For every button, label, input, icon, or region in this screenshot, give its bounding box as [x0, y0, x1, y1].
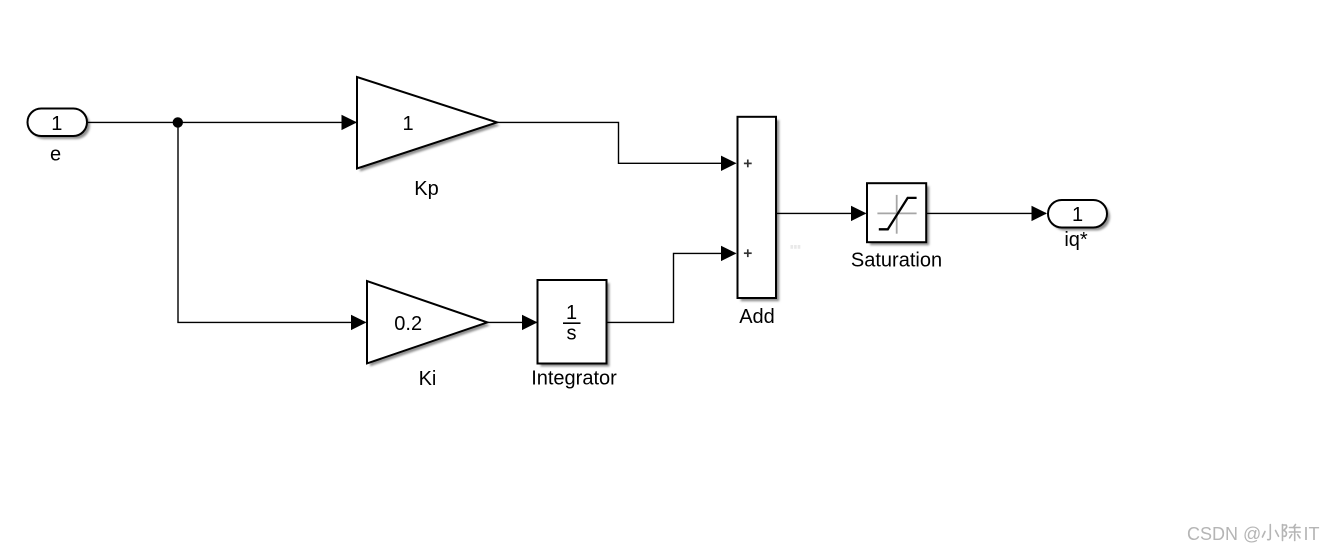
input port e (Inport 1): [28, 109, 91, 140]
svg-text:1: 1: [402, 113, 413, 135]
arrowhead into Saturation: [851, 206, 867, 221]
integrator U1: [538, 280, 610, 367]
wire Add to Saturation: [777, 212, 866, 214]
plus sign input 2: [744, 249, 752, 257]
svg-text:iq*: iq*: [1064, 229, 1088, 251]
arrowhead into Add input 2: [721, 246, 737, 261]
svg-text:1: 1: [51, 113, 62, 135]
svg-text:Add: Add: [739, 306, 775, 328]
svg-text:0.2: 0.2: [394, 313, 422, 335]
glyph 小: [1262, 525, 1278, 540]
svg-text:e: e: [50, 144, 61, 166]
svg-text:Kp: Kp: [414, 178, 438, 200]
gain Kp: [357, 77, 500, 172]
arrowhead into output port: [1032, 206, 1048, 221]
saturation block: [867, 183, 929, 245]
gain Ki: [367, 281, 490, 366]
svg-text:Saturation: Saturation: [851, 250, 942, 272]
svg-text:s: s: [567, 323, 577, 345]
wire Kp to Add input 1: [497, 122, 736, 163]
junction node: [173, 117, 183, 127]
wire input to Kp: [88, 121, 356, 123]
wire branch down to Ki: [178, 122, 366, 322]
wire Integrator to Add input 2: [607, 253, 736, 322]
svg-text:1: 1: [566, 302, 577, 324]
svg-text:Integrator: Integrator: [531, 367, 617, 389]
arrowhead into Integrator: [522, 315, 538, 330]
wire Saturation to output port: [927, 212, 1046, 214]
arrowhead into Kp: [342, 115, 358, 130]
svg-text:1: 1: [1072, 204, 1083, 226]
glyph 陈: [1283, 525, 1301, 541]
svg-text:IT: IT: [1304, 524, 1320, 544]
watermark CSDN @小陈IT: [1187, 524, 1320, 544]
svg-text:Ki: Ki: [419, 368, 437, 390]
wire Ki to Integrator: [488, 321, 537, 323]
faint watermark blob: [791, 245, 801, 249]
output port iq* (Outport 1): [1048, 200, 1110, 231]
svg-text:CSDN @: CSDN @: [1187, 524, 1261, 544]
plus sign input 1: [744, 160, 752, 168]
arrowhead into Add input 1: [721, 156, 737, 171]
saturation icon gray axes: [896, 195, 898, 234]
adder Add: [738, 117, 780, 301]
arrowhead into Ki: [351, 315, 367, 330]
saturation icon curve: [879, 198, 917, 229]
